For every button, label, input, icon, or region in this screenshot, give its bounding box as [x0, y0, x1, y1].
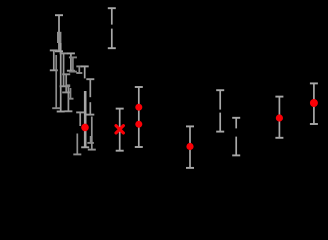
error bar 5: [60, 53, 68, 86]
error bar 21 (with red point): [186, 126, 194, 167]
error bar 25 (with red point): [310, 83, 318, 124]
gray marker blob on bar 1: [57, 32, 61, 43]
error bar 1 (cluster tall top): [55, 15, 63, 51]
error bar 18 (top middle): [108, 8, 116, 48]
red point P6: [276, 114, 283, 121]
error bar 19 (with red X): [116, 109, 124, 151]
red point P3: [135, 104, 142, 111]
error bar 4 (left long): [52, 55, 60, 108]
red X marker P2: [116, 126, 123, 133]
error bar 3: [50, 50, 58, 70]
error bar 6: [62, 74, 70, 92]
gray square marker on bar 9: [67, 84, 70, 87]
red point P4: [135, 121, 142, 128]
error bar 12 (upper seg): [81, 66, 89, 78]
red point P1: [81, 124, 89, 132]
error bar 15b (stub): [87, 136, 94, 143]
error bar 20 (two red points): [135, 87, 143, 147]
error bar 13 (with red point): [81, 91, 89, 147]
error bar 16 (cap top): [76, 112, 84, 126]
error bar 24 (with red point): [275, 97, 283, 138]
error bar 7: [67, 53, 75, 70]
red point P7: [310, 99, 318, 107]
error bar 2 (cluster center long): [57, 43, 65, 112]
error bar 8: [69, 57, 77, 71]
red point P5: [186, 143, 193, 150]
error bar 15: [88, 117, 96, 150]
error bar 11 (small): [76, 66, 82, 73]
error bar 22: [216, 90, 224, 131]
error bar 14: [86, 79, 94, 114]
error bar 17: [73, 134, 81, 155]
error bar 23: [232, 118, 240, 156]
error bar 9: [64, 86, 72, 111]
error bar 10 (small): [68, 88, 74, 99]
